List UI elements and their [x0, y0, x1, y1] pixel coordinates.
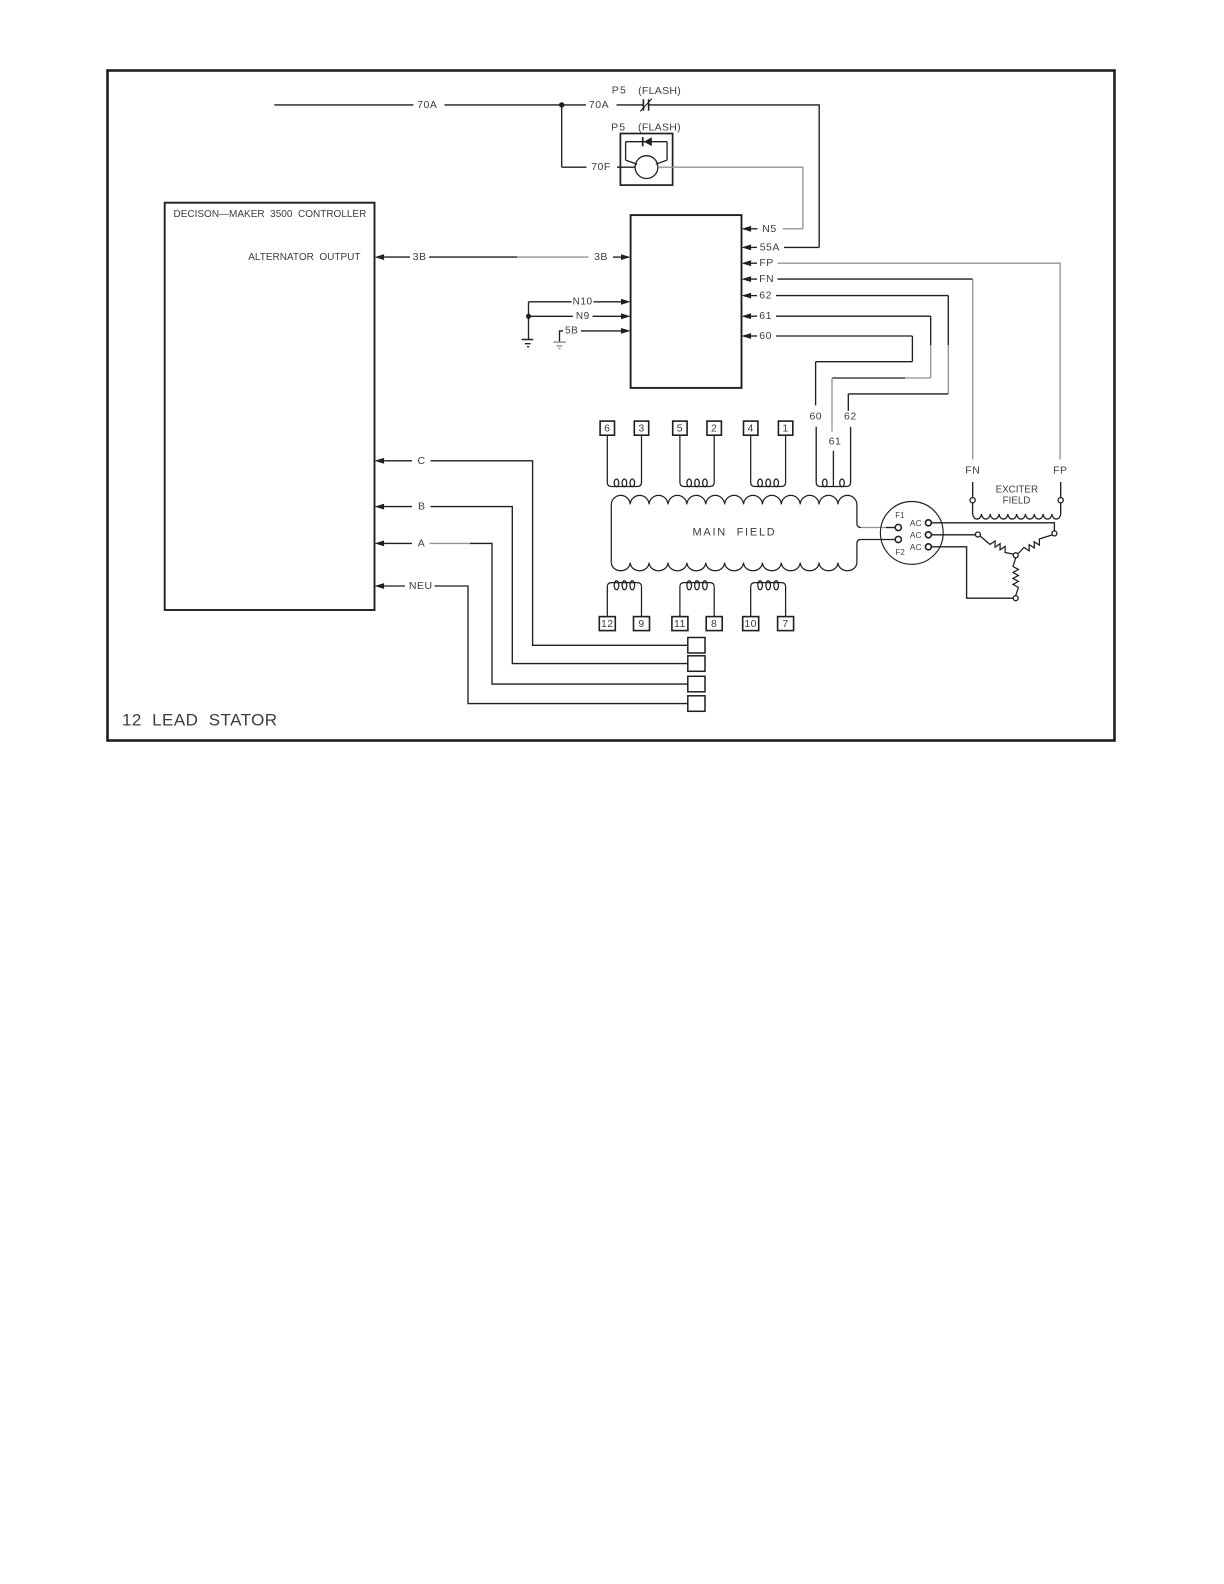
lead box 4	[744, 421, 758, 435]
terminal F1	[895, 524, 901, 530]
stator winding 10-7	[751, 581, 786, 617]
svg-text:5B: 5B	[565, 325, 578, 336]
label 3B (controller side)	[413, 251, 427, 263]
pin ALTERNATOR OUTPUT arrow at controller	[375, 254, 411, 260]
svg-text:NEU: NEU	[409, 580, 433, 592]
svg-text:62: 62	[844, 411, 857, 423]
svg-text:6: 6	[604, 422, 610, 434]
voltage regulator A1	[631, 215, 742, 388]
wire 5B ground drop	[560, 331, 564, 342]
label B	[418, 501, 426, 513]
label FN (regulator)	[759, 273, 774, 285]
wire N10	[529, 301, 572, 303]
flash device P5 enclosure	[620, 134, 672, 186]
wire 61 route	[776, 316, 931, 431]
label 55A	[760, 241, 780, 253]
main field winding	[611, 495, 861, 570]
label N9	[576, 311, 590, 322]
label F2	[896, 548, 906, 557]
svg-text:12: 12	[601, 618, 614, 630]
svg-text:AC: AC	[910, 518, 922, 528]
wire 70F to label	[562, 166, 587, 168]
wire 61 stem to coil	[832, 451, 834, 481]
svg-text:FP: FP	[759, 257, 773, 269]
pin 3B arrow into regulator	[613, 254, 631, 260]
label C	[417, 455, 425, 467]
svg-text:ALTERNATOR OUTPUT: ALTERNATOR OUTPUT	[248, 252, 360, 263]
label (FLASH) (contact)	[638, 85, 681, 97]
label AC1	[910, 518, 922, 528]
label AC2	[910, 530, 922, 540]
ground G1	[522, 340, 534, 347]
wire A to lead square	[430, 543, 688, 684]
node bottom	[1013, 596, 1018, 601]
label FIELD	[1003, 495, 1031, 506]
svg-text:C: C	[417, 455, 425, 467]
wire FP below label	[1060, 482, 1062, 498]
wire FN below label	[972, 482, 974, 498]
wire N5 to 70F corner	[783, 228, 803, 230]
lead square B	[688, 656, 705, 672]
svg-text:P5: P5	[612, 85, 627, 97]
border frame of schematic	[108, 71, 1115, 741]
svg-text:2: 2	[711, 422, 717, 434]
pin 55A arrow into regulator	[742, 245, 758, 251]
svg-text:60: 60	[759, 330, 772, 342]
label A	[418, 537, 426, 549]
svg-text:9: 9	[638, 618, 644, 630]
label ALTERNATOR OUTPUT	[248, 252, 360, 263]
wire 60 stem to coil	[815, 427, 817, 482]
node center	[1013, 553, 1018, 558]
label 61 (coil side)	[829, 436, 842, 448]
label FP (regulator)	[759, 257, 773, 269]
svg-text:3B: 3B	[413, 251, 427, 263]
lead box 6	[600, 421, 614, 435]
resistor R1	[980, 536, 1014, 554]
lead box 5	[673, 421, 687, 435]
svg-text:70A: 70A	[589, 99, 609, 111]
junction N9-N10 ground node	[526, 314, 531, 319]
label 60 (regulator)	[759, 330, 772, 342]
pin A arrow at controller	[375, 541, 413, 547]
svg-text:(FLASH): (FLASH)	[638, 122, 681, 134]
wire 62 route	[776, 296, 948, 411]
terminal AC2	[925, 532, 931, 538]
svg-text:8: 8	[711, 618, 717, 630]
junction 70A node	[559, 102, 564, 107]
pin N9 arrow into regulator	[593, 313, 631, 319]
rotating rectifier assembly circle	[880, 502, 943, 565]
svg-text:5: 5	[677, 422, 683, 434]
wire NEU to lead square	[435, 586, 688, 704]
svg-text:B: B	[418, 501, 426, 513]
svg-text:4: 4	[748, 422, 754, 434]
wire AC2 to wye node TL	[931, 534, 975, 536]
wire 70A-70F branch vertical	[561, 105, 563, 167]
svg-text:62: 62	[759, 290, 772, 302]
label 61 (regulator)	[759, 310, 772, 322]
stator winding 5-2	[680, 435, 714, 487]
diode CR inside flash device	[626, 137, 668, 146]
label 62 (regulator)	[759, 290, 772, 302]
label 70A (left)	[417, 99, 437, 111]
lead box 1	[778, 421, 792, 435]
wire 55A to 70A corner	[784, 246, 819, 248]
terminal AC3	[925, 544, 931, 550]
svg-text:MAIN FIELD: MAIN FIELD	[692, 527, 776, 539]
pin FN arrow into regulator	[742, 276, 758, 282]
svg-text:70A: 70A	[417, 99, 437, 111]
contact P5 FLASH bars with slash	[640, 99, 652, 112]
wire main field F1	[861, 527, 895, 529]
svg-text:DECISON—MAKER 3500 CONTROLLE: DECISON—MAKER 3500 CONTROLLER	[174, 209, 367, 220]
svg-text:F2: F2	[896, 548, 906, 557]
terminal FN	[970, 498, 975, 503]
stator winding 4-1	[751, 435, 786, 487]
title 12 LEAD STATOR	[122, 710, 278, 729]
wire 70A left segment	[274, 104, 413, 106]
svg-text:FIELD: FIELD	[1003, 495, 1031, 506]
label 70F	[591, 161, 611, 173]
svg-text:F1: F1	[895, 511, 905, 520]
lead box 3	[634, 421, 648, 435]
wire 70A from contact to 55A corner	[649, 105, 820, 248]
svg-text:12 LEAD STATOR: 12 LEAD STATOR	[122, 710, 278, 729]
resistor R2	[1018, 535, 1053, 554]
svg-text:FN: FN	[965, 464, 980, 476]
lead box 8	[706, 617, 722, 631]
node TR	[1052, 531, 1057, 536]
lead square C	[688, 638, 705, 654]
svg-text:3B: 3B	[594, 251, 608, 263]
label P5 (contact)	[612, 85, 627, 97]
svg-text:FN: FN	[759, 273, 774, 285]
wire 60 route	[776, 336, 912, 405]
wire N10/N9 ground drop	[528, 302, 530, 340]
label F1	[895, 511, 905, 520]
label MAIN FIELD	[692, 527, 776, 539]
pin B arrow at controller	[375, 504, 413, 510]
svg-text:N9: N9	[576, 311, 590, 322]
wire B to lead square	[431, 507, 688, 664]
label 60 (coil side)	[809, 411, 822, 423]
label N5	[762, 223, 776, 235]
terminal AC1	[925, 520, 931, 526]
lead box 11	[672, 617, 688, 631]
pin 60 arrow into regulator	[742, 333, 758, 339]
svg-text:P5: P5	[611, 121, 626, 133]
svg-text:55A: 55A	[760, 241, 780, 253]
label 3B (regulator side)	[594, 251, 608, 263]
ground G2	[554, 342, 566, 348]
pin 62 arrow into regulator	[742, 293, 758, 299]
wire 70A middle segment	[445, 104, 587, 106]
label EXCITER	[996, 485, 1038, 496]
lead box 10	[743, 617, 759, 631]
stator winding 60-61-62	[816, 479, 850, 487]
wire 70F label to lamp	[617, 166, 635, 168]
lead square NEU	[688, 696, 705, 712]
stator winding 6-3	[607, 435, 641, 487]
wire main field F2	[861, 539, 895, 541]
svg-text:61: 61	[829, 436, 842, 448]
svg-text:10: 10	[744, 618, 757, 630]
label AC3	[910, 542, 922, 552]
svg-text:1: 1	[782, 422, 788, 434]
pin 61 arrow into regulator	[742, 313, 758, 319]
pin N10 arrow into regulator	[594, 299, 631, 305]
pin NEU arrow at controller	[375, 583, 406, 589]
lead box 2	[707, 421, 721, 435]
wire 70F lamp to N5 corner	[658, 167, 803, 229]
label FP (exciter)	[1053, 464, 1067, 476]
wire C to lead square	[431, 461, 688, 646]
svg-text:(FLASH): (FLASH)	[638, 85, 681, 97]
lead box 9	[634, 617, 650, 631]
wire FP to exciter	[778, 263, 1061, 459]
svg-text:EXCITER: EXCITER	[996, 485, 1038, 496]
lead box 12	[599, 617, 615, 631]
wire N9	[529, 315, 574, 317]
svg-text:7: 7	[782, 618, 788, 630]
wire 62 stem to coil	[850, 427, 852, 482]
label 70A (right)	[589, 99, 609, 111]
svg-text:A: A	[418, 537, 426, 549]
wire 3B long segment	[429, 256, 589, 258]
controller U1 DECISON-MAKER 3500	[165, 203, 375, 610]
flash lamp DS	[635, 156, 658, 179]
svg-text:AC: AC	[910, 542, 922, 552]
wire FP terminal to coil	[1060, 503, 1062, 514]
pin FP arrow into regulator	[742, 260, 758, 266]
svg-text:AC: AC	[910, 530, 922, 540]
svg-text:70F: 70F	[591, 161, 611, 173]
lead square A	[688, 676, 705, 692]
flash lamp internal wiring	[626, 142, 668, 165]
resistor R3	[1013, 558, 1018, 596]
wire AC3 to wye node bottom	[931, 547, 1013, 598]
label DECISON-MAKER 3500 CONTROLLER	[174, 209, 367, 220]
lead box 7	[778, 617, 794, 631]
pin C arrow at controller	[375, 458, 413, 464]
wire FN terminal to coil	[972, 503, 974, 514]
label (FLASH) (flash device)	[638, 122, 681, 134]
label 62 (coil side)	[844, 411, 857, 423]
svg-text:61: 61	[759, 310, 772, 322]
node TL	[975, 532, 980, 537]
svg-text:N5: N5	[762, 223, 776, 235]
stator winding 12-9	[607, 581, 641, 617]
label P5 (flash device)	[611, 121, 626, 133]
pin 5B arrow into regulator	[581, 328, 631, 334]
svg-text:FP: FP	[1053, 464, 1067, 476]
stator winding 11-8	[680, 581, 714, 617]
wire 70A to contact	[617, 104, 644, 106]
wire AC1 to wye node TR	[931, 523, 1054, 531]
svg-text:N10: N10	[573, 296, 593, 307]
svg-text:3: 3	[638, 422, 644, 434]
svg-text:60: 60	[809, 411, 822, 423]
terminal FP	[1058, 498, 1063, 503]
label N10	[573, 296, 593, 307]
label NEU	[409, 580, 433, 592]
wire FN to exciter	[778, 279, 973, 459]
label FN (exciter)	[965, 464, 980, 476]
label 5B	[565, 325, 578, 336]
exciter field winding	[973, 514, 1061, 519]
svg-text:11: 11	[674, 618, 686, 630]
pin N5 arrow into regulator	[742, 226, 758, 232]
terminal F2	[895, 536, 901, 542]
